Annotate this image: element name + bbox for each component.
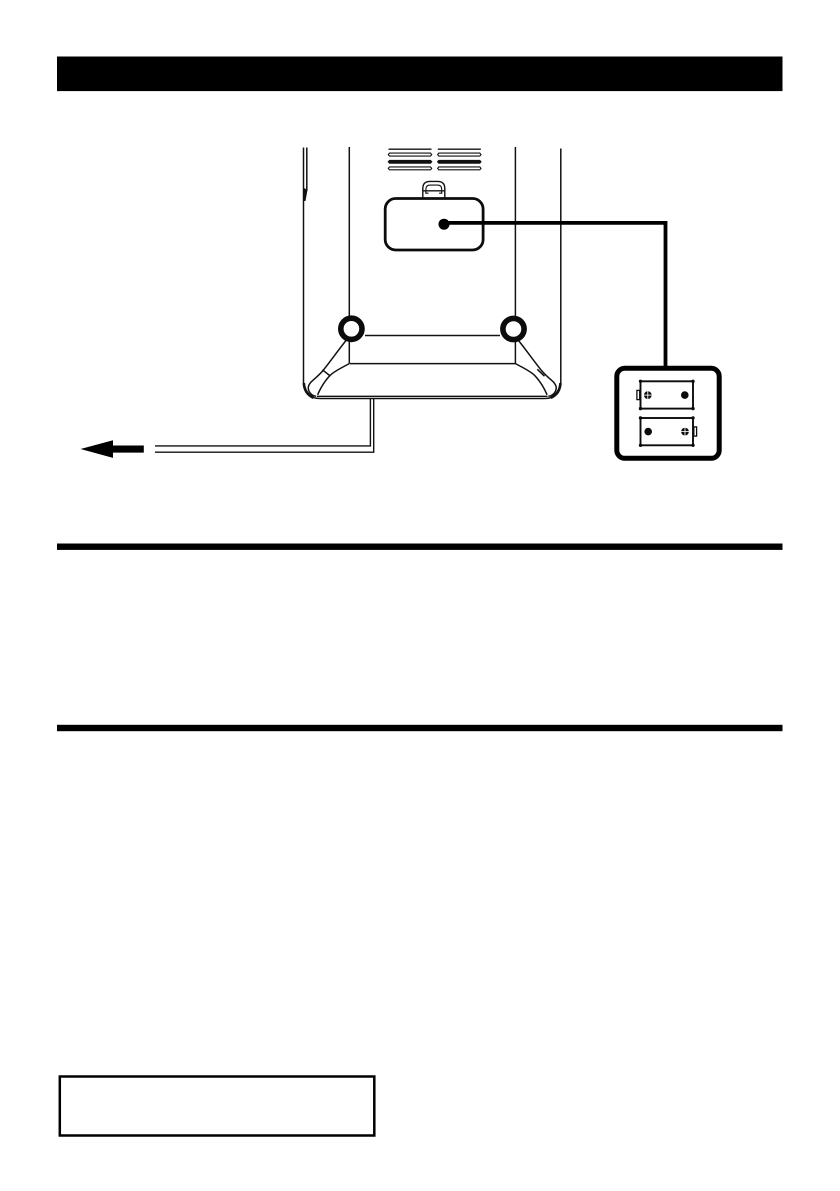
inner panel line right — [514, 147, 516, 364]
stand left arm — [308, 340, 349, 397]
header bar (solid black title banner) — [57, 57, 783, 92]
battery B2 plus terminal — [681, 428, 689, 436]
section rule 1 — [57, 544, 783, 550]
section rule 2 — [57, 725, 783, 731]
arrow to wall jack — [81, 440, 144, 458]
battery B1 minus terminal — [681, 391, 689, 399]
battery B1 outline — [641, 381, 694, 408]
left screw hole — [341, 318, 362, 339]
inner panel line left — [348, 147, 350, 364]
battery B2 outline — [641, 418, 694, 445]
note box (empty rectangle) — [60, 1077, 375, 1136]
vent slats left group — [388, 149, 431, 170]
stand bottom edge — [317, 395, 548, 397]
vent slats right group — [438, 149, 481, 170]
callout dot on door — [439, 219, 450, 230]
battery compartment door — [385, 199, 483, 251]
battery B2 right spring contact — [694, 427, 697, 436]
line cord (double line) — [155, 399, 374, 452]
battery B1 plus terminal — [644, 391, 652, 399]
right foot dark corner — [551, 383, 561, 398]
stand right arm — [515, 340, 556, 397]
battery B2 minus terminal — [644, 428, 652, 436]
callout line to battery box — [444, 223, 666, 367]
battery B2 corner dots — [639, 416, 695, 447]
right screw hole — [503, 318, 524, 339]
battery B1 corner dots — [639, 380, 695, 411]
battery box outline — [617, 368, 719, 458]
battery door latch tab — [423, 181, 445, 198]
stand platform top edge — [350, 363, 515, 365]
battery B1 left spring contact — [637, 390, 640, 399]
line between screw holes — [365, 335, 500, 337]
left foot dark corner — [304, 383, 314, 398]
left edge inner curve (doubled side line) — [306, 148, 308, 191]
phone body outline (back of telephone base) — [304, 148, 561, 399]
